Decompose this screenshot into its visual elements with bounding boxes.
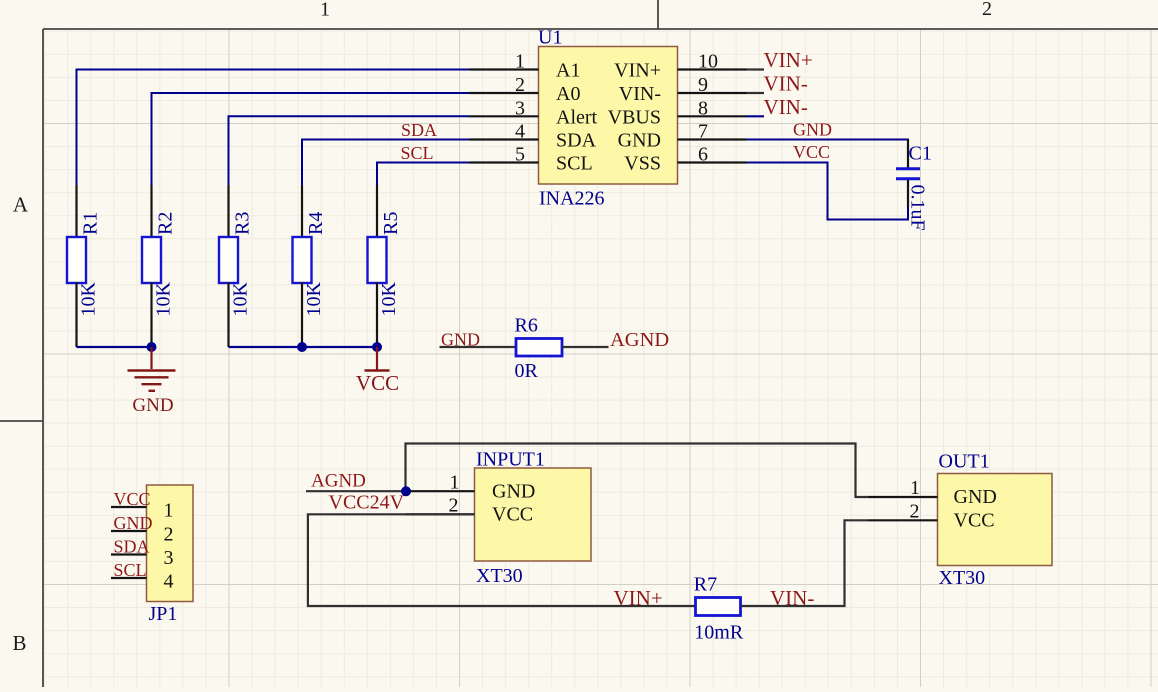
svg-text:VIN-: VIN- [619,83,661,105]
svg-text:VCC: VCC [492,504,533,526]
svg-text:VIN-: VIN- [764,72,808,96]
OUT1 pin 2 [869,519,938,521]
sheet border frame [42,29,44,687]
svg-text:3: 3 [515,97,525,119]
svg-text:Alert: Alert [556,106,598,128]
svg-text:A0: A0 [556,83,580,105]
svg-text:R2: R2 [155,212,177,235]
wire U1 pin4 to R4 [302,140,469,187]
INPUT1 pin 2 [406,513,475,515]
svg-text:VIN+: VIN+ [764,48,813,72]
svg-text:10K: 10K [230,282,252,317]
svg-text:R6: R6 [515,315,538,337]
svg-text:2: 2 [910,500,920,522]
junction R4 [297,342,307,352]
svg-text:XT30: XT30 [939,567,986,589]
ruler divider left [0,420,43,422]
svg-text:B: B [12,631,26,655]
resistor R5 top lead [376,185,378,238]
svg-text:10mR: 10mR [694,622,744,644]
svg-text:4: 4 [164,571,174,593]
JP1 pin 1 wire [111,506,147,508]
svg-text:SDA: SDA [401,120,437,140]
resistor R5 body [368,237,387,283]
resistor R5 bottom lead [376,282,378,347]
svg-text:GND: GND [793,120,832,140]
svg-text:SCL: SCL [114,560,147,580]
U1 pin 4 [469,138,539,140]
svg-text:JP1: JP1 [149,603,178,625]
resistor R7 body [696,598,741,616]
resistor R3 top lead [227,185,229,238]
resistor R1 top lead [75,185,77,238]
wire stub pin9 [747,92,765,94]
resistor R4 body [293,237,312,283]
resistor R1 bottom lead [75,282,77,347]
svg-text:VCC: VCC [114,489,151,509]
resistor R2 body [142,237,161,283]
svg-text:XT30: XT30 [476,565,523,587]
svg-text:VIN+: VIN+ [614,60,661,82]
U1 pin 6 [678,161,747,163]
svg-text:10K: 10K [78,282,100,317]
svg-text:GND: GND [618,130,661,152]
svg-text:9: 9 [698,74,708,96]
svg-text:1: 1 [910,477,920,499]
wire VCC24V down to R7 [308,514,695,606]
U1 pin 5 [469,161,539,163]
U1 pin 9 [678,92,747,94]
U1 pin 1 [469,68,539,70]
resistor R4 bottom lead [301,282,303,347]
svg-text:R4: R4 [305,212,327,235]
svg-text:3: 3 [164,547,174,569]
op-amp U1 INA226 body [539,47,678,185]
svg-text:SDA: SDA [556,130,597,152]
svg-text:VCC: VCC [954,510,995,532]
ruler divider top [657,0,659,29]
wire U1 pin5 to R5 [377,163,469,187]
resistor R6 body [516,339,562,357]
capacitor C1 bottom lead [907,180,909,207]
U1 pin 7 [678,138,747,140]
svg-text:R7: R7 [694,574,717,596]
resistor R2 top lead [150,185,152,238]
svg-text:GND: GND [114,513,153,533]
svg-text:6: 6 [698,144,708,166]
svg-text:R5: R5 [380,212,402,235]
resistor R1 body [67,237,86,283]
wire pin7 to C1 [747,140,909,168]
svg-text:0R: 0R [515,360,539,382]
svg-text:2: 2 [982,0,992,20]
svg-text:VBUS: VBUS [608,106,661,128]
INPUT1 pin 1 [406,490,475,492]
connector INPUT1 body [475,468,592,561]
OUT1 pin 1 [869,496,938,498]
capacitor C1 top lead [907,140,909,168]
svg-text:10: 10 [698,51,718,73]
U1 pin 2 [469,92,539,94]
junction R5/VCC [372,342,382,352]
connector OUT1 body [938,474,1053,566]
svg-text:VIN-: VIN- [764,95,808,119]
svg-text:INPUT1: INPUT1 [476,449,545,471]
connector JP1 body [147,485,194,602]
svg-text:OUT1: OUT1 [939,450,990,472]
resistor R3 bottom lead [227,282,229,347]
svg-text:SCL: SCL [556,153,593,175]
wire VCC bus R3-R5 [229,346,378,348]
svg-text:1: 1 [450,472,460,494]
svg-text:INA226: INA226 [539,188,605,210]
wire pin6 to C1 bottom [747,163,909,220]
svg-text:VCC24V: VCC24V [329,492,405,514]
svg-text:GND: GND [954,486,997,508]
wire AGND to junction [306,490,406,492]
svg-text:1: 1 [515,51,525,73]
JP1 pin 3 wire [111,553,147,555]
svg-text:SCL: SCL [401,143,434,163]
svg-text:VCC: VCC [356,371,399,395]
svg-text:8: 8 [698,97,708,119]
svg-text:GND: GND [132,395,173,416]
ground symbol GND [128,347,176,416]
svg-text:R3: R3 [232,212,254,235]
svg-text:2: 2 [449,494,459,516]
wire stub pin8 [747,115,765,117]
svg-text:VCC: VCC [793,142,830,162]
svg-text:4: 4 [515,121,525,143]
svg-text:10K: 10K [378,282,400,317]
wire GND to R6 [440,346,517,348]
svg-text:AGND: AGND [311,471,366,492]
wire U1 pin3 to R3 [229,116,470,186]
wire U1 pin2 to R2 [152,93,470,186]
svg-text:SDA: SDA [114,537,150,557]
wire R6 to AGND [562,346,609,348]
wire R7 to OUT1 pin2 [741,520,869,606]
svg-text:R1: R1 [80,212,102,235]
svg-text:VSS: VSS [624,153,661,175]
svg-text:0.1uF: 0.1uF [907,185,929,231]
JP1 pin 4 wire [111,577,147,579]
wire U1 pin1 to R1 [77,70,470,187]
JP1 pin 2 wire [111,530,147,532]
resistor R2 bottom lead [150,282,152,347]
wire GND bus R1-R2 [77,346,152,348]
svg-text:10K: 10K [153,282,175,317]
svg-text:2: 2 [515,74,525,96]
svg-text:A1: A1 [556,60,580,82]
svg-text:U1: U1 [538,27,562,49]
svg-text:5: 5 [515,144,525,166]
power symbol VCC [356,347,399,395]
U1 pin 10 [678,68,747,70]
svg-text:VIN+: VIN+ [614,586,663,610]
svg-text:10K: 10K [303,282,325,317]
svg-text:A: A [13,193,29,217]
svg-text:1: 1 [164,500,174,522]
svg-text:GND: GND [492,481,535,503]
junction R2/GND [147,342,157,352]
svg-text:1: 1 [320,0,330,21]
svg-text:C1: C1 [909,142,932,164]
wire junction up and over to OUT1 pin1 [406,444,869,498]
resistor R4 top lead [301,185,303,238]
U1 pin 8 [678,115,747,117]
svg-text:2: 2 [164,524,174,546]
resistor R3 body [219,237,238,283]
capacitor C1 plates [896,167,920,170]
svg-text:7: 7 [698,121,708,143]
junction AGND node [401,486,411,496]
wire stub pin10 [747,68,765,70]
U1 pin 3 [469,115,539,117]
svg-text:AGND: AGND [610,329,669,351]
